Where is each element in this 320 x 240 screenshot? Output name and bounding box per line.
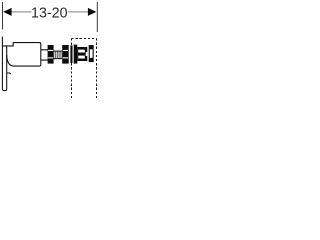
svg-text:13-20: 13-20 bbox=[31, 5, 68, 21]
